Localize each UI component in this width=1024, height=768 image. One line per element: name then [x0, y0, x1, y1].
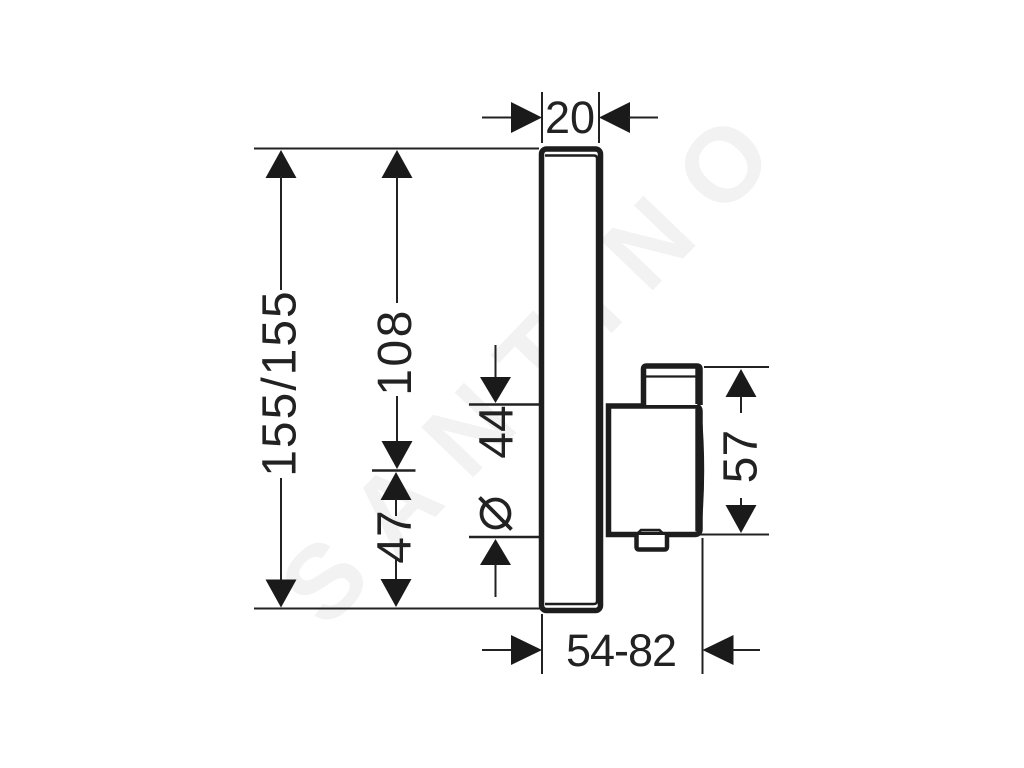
dim155 top extension line [254, 148, 539, 150]
dim44 leader bottom [495, 564, 497, 597]
dim47 line lower [395, 558, 397, 580]
dim20 leader left [482, 117, 513, 119]
dim57 extension line bottom [700, 534, 769, 536]
dim5482 leader left [482, 649, 513, 651]
dim20 extension line left [541, 92, 543, 143]
plate inner face line [545, 156, 597, 605]
dim5482 arrow left [511, 635, 542, 665]
dim20 leader right [628, 117, 658, 119]
dim57 arrow down [726, 505, 757, 533]
dim155 arrow up [266, 150, 297, 178]
svg-text:57: 57 [715, 430, 768, 483]
dim20 arrow right [599, 102, 630, 133]
dim155 arrow down [266, 580, 297, 608]
diameter symbol [482, 500, 510, 528]
dim44 arrow up [480, 539, 511, 565]
dim108 line lower [396, 396, 398, 443]
dim108 arrow up [382, 150, 413, 178]
dim5482 extension line left [541, 614, 543, 674]
dim57 line upper [740, 396, 742, 413]
handle top knob [644, 366, 701, 405]
svg-text:108: 108 [369, 308, 422, 396]
dim108 arrow down [382, 441, 413, 469]
plate outer rounded rect [542, 149, 601, 611]
dim57 extension line top [704, 366, 769, 368]
dim47 arrow down [381, 579, 412, 607]
dim108 line upper [396, 176, 398, 303]
dim155 line lower [280, 478, 282, 581]
dim5482 extension line right [702, 538, 704, 674]
knob inner top line [646, 375, 698, 377]
dim20 extension line right [598, 92, 600, 143]
dim155 bottom extension line [254, 608, 541, 610]
dim5482 arrow right [703, 635, 734, 665]
dim44 leader top [495, 345, 497, 380]
handle body [609, 406, 701, 535]
dim57 arrow up [726, 369, 757, 397]
handle body inner right line [695, 409, 697, 531]
dim108/47 tick [372, 469, 416, 472]
svg-text:47: 47 [369, 510, 422, 563]
handle bottom tab [637, 535, 668, 550]
svg-text:20: 20 [545, 92, 595, 143]
dim155 line upper [280, 176, 282, 290]
knob inner right line [695, 368, 697, 404]
dim20 arrow left [511, 102, 542, 133]
svg-text:44: 44 [471, 405, 524, 458]
svg-text:54-82: 54-82 [566, 625, 676, 676]
dim47 line upper [395, 499, 397, 516]
dim44 tick top [469, 403, 539, 405]
handle bottom tab bump [636, 530, 665, 535]
handle body right bulge arc [701, 413, 704, 527]
dim44 tick bottom [469, 536, 539, 538]
dim47 arrow up [381, 472, 412, 500]
dim5482 leader right [732, 649, 760, 651]
svg-text:155/155: 155/155 [254, 289, 307, 477]
dim44 arrow down [480, 377, 511, 403]
dim57 line lower [740, 498, 742, 507]
